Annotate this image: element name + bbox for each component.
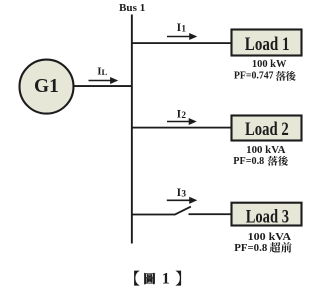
svg-text:Load 2: Load 2 (245, 120, 289, 140)
generator G1 (20, 60, 74, 114)
svg-text:PF=0.8: PF=0.8 (234, 242, 268, 254)
svg-text:PF=0.8: PF=0.8 (233, 156, 264, 167)
character 超 (270, 242, 281, 253)
character 後 (286, 71, 296, 81)
svg-text:I2: I2 (177, 108, 187, 121)
switch S (open disconnect) blade (174, 207, 191, 215)
load box Load 2 (232, 116, 302, 141)
svg-text:PF=0.747: PF=0.747 (234, 71, 274, 82)
caption character 圖 (Figure) (144, 273, 155, 284)
svg-text:IL: IL (97, 66, 107, 78)
current arrow IL (89, 77, 119, 84)
svg-text:100 kW: 100 kW (252, 59, 287, 70)
wire Bus 1 to switch (Load 3 branch, left segment) (131, 214, 175, 216)
svg-text:G1: G1 (34, 75, 59, 97)
wire Bus 1 to Load 1 (131, 42, 231, 44)
svg-text:I3: I3 (177, 187, 187, 200)
current arrow I2 (167, 118, 197, 125)
current arrow I3 (167, 197, 198, 204)
svg-text:Load 1: Load 1 (245, 35, 290, 55)
wire G1 to Bus 1 (74, 85, 131, 87)
wire Bus 1 to Load 2 (131, 127, 231, 129)
load box Load 3 (232, 203, 302, 226)
svg-text:100 kVA: 100 kVA (246, 145, 286, 156)
svg-text:I1: I1 (177, 22, 187, 35)
svg-text:1: 1 (162, 271, 170, 288)
character 後 (278, 156, 288, 166)
caption bracket 】 (176, 271, 181, 286)
svg-text:Bus 1: Bus 1 (119, 3, 145, 14)
svg-text:Load 3: Load 3 (246, 207, 289, 227)
character 落 (268, 156, 278, 166)
current arrow I1 (167, 33, 197, 40)
character 前 (281, 242, 292, 253)
bus Bus 1 (vertical busbar) (131, 15, 133, 244)
wire switch to Load 3 (right segment) (189, 213, 232, 215)
character 落 (276, 71, 286, 81)
load box Load 1 (232, 30, 302, 56)
caption bracket 【 (134, 271, 139, 286)
